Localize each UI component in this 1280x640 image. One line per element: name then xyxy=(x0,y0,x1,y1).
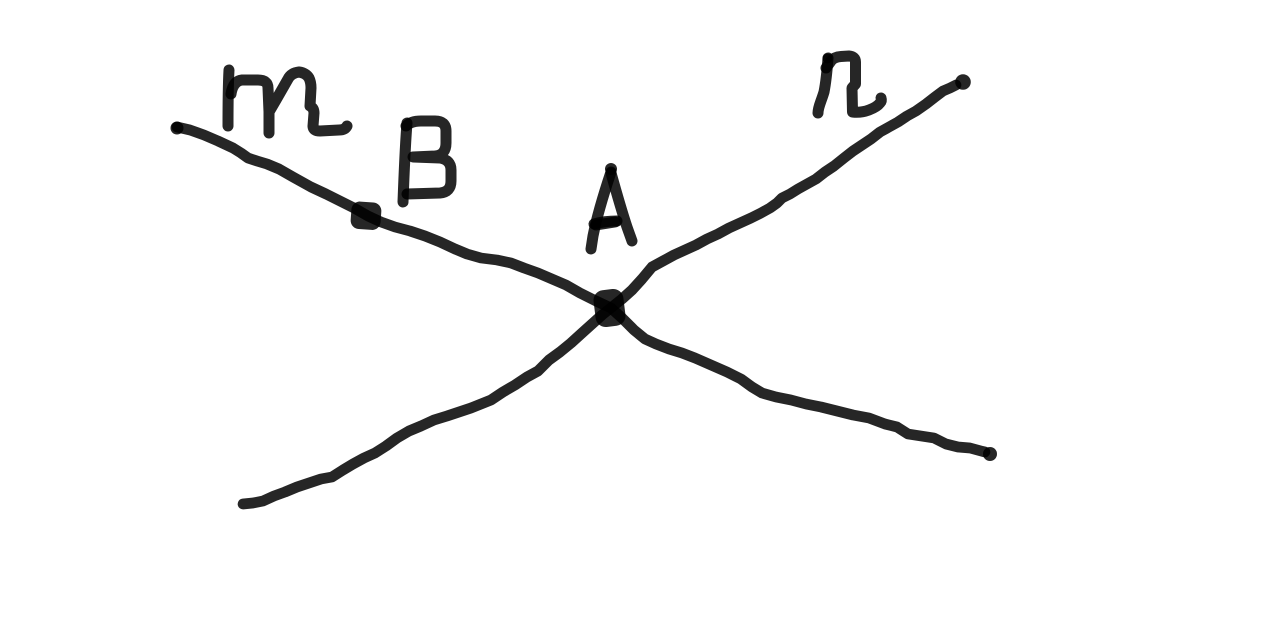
pen bulb at line m right end xyxy=(983,447,997,461)
line n xyxy=(243,85,956,504)
pen bulb at line n top end xyxy=(955,74,971,90)
point A (intersection) xyxy=(592,288,626,328)
label B xyxy=(403,121,451,202)
point B xyxy=(350,201,382,231)
pen dot at line m start xyxy=(171,122,184,135)
label n xyxy=(818,56,881,113)
label A xyxy=(591,172,632,249)
line m xyxy=(177,127,985,452)
pen dot at label A apex xyxy=(605,163,617,175)
pen blob at label n top-left xyxy=(823,54,833,64)
label m xyxy=(228,70,347,133)
